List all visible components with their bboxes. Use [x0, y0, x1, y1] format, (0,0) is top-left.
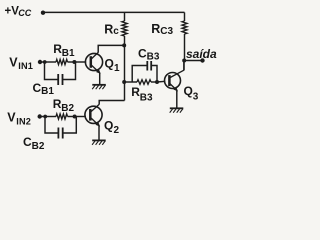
svg-text:saída: saída: [186, 47, 217, 61]
wire to Q3 base: [157, 80, 165, 83]
svg-text:B1: B1: [62, 48, 75, 59]
svg-text:B1: B1: [41, 86, 54, 97]
node +Vcc terminal: [41, 11, 45, 15]
resistor Rb3: [124, 80, 157, 85]
capacitor Cb2: [45, 117, 76, 139]
node junction bus / Q3 base network: [122, 80, 126, 84]
label Rc3: [151, 22, 173, 37]
label Cb1: [33, 81, 55, 97]
wire to Q1 base: [75, 61, 86, 63]
wire Q1 emitter to ground: [99, 73, 101, 85]
wire Q2 collector: [99, 101, 124, 105]
resistor Rc3: [182, 12, 187, 34]
svg-text:CC: CC: [18, 8, 31, 18]
node input2 to Q2 base: [73, 115, 77, 119]
node input1 split: [43, 60, 47, 64]
label Q2: [104, 118, 120, 136]
wire output tap: [184, 60, 201, 62]
ground Q1: [92, 85, 106, 89]
svg-text:c: c: [113, 26, 119, 37]
svg-text:B2: B2: [32, 141, 45, 152]
label Rc: [104, 23, 119, 37]
node junction Rc / Q1 collector: [122, 43, 126, 47]
node input1 to Q1 base: [72, 60, 76, 64]
svg-text:Q: Q: [184, 84, 193, 98]
wire Q3 collector riser: [183, 61, 185, 71]
label Vin2: [7, 111, 31, 127]
label Q1: [105, 56, 121, 74]
label Rb2: [53, 97, 75, 114]
capacitor Cb3: [132, 61, 157, 82]
node Vin1 terminal: [38, 60, 42, 64]
svg-text:B2: B2: [61, 103, 74, 114]
label Cb2: [23, 135, 45, 152]
resistor Rc: [122, 12, 127, 36]
label Rb3: [131, 85, 153, 104]
svg-text:C3: C3: [160, 26, 173, 37]
label Cb3: [138, 46, 160, 62]
svg-text:IN1: IN1: [18, 61, 33, 71]
power label +Vcc: [5, 6, 32, 19]
label Vin1: [9, 56, 33, 72]
label Rb1: [53, 42, 75, 59]
wire Vin2 to node: [40, 116, 45, 118]
transistor Q2: [85, 104, 102, 126]
node saida terminal: [200, 58, 204, 62]
ground Q3: [170, 108, 184, 112]
transistor Q1: [85, 52, 102, 73]
resistor Rb2: [45, 114, 75, 119]
wire Q1 collector: [98, 45, 124, 52]
svg-text:B3: B3: [147, 51, 160, 62]
svg-text:IN2: IN2: [16, 117, 31, 127]
svg-text:R: R: [104, 23, 113, 37]
svg-text:B3: B3: [140, 93, 153, 104]
ground Q2: [92, 140, 106, 144]
svg-text:V: V: [9, 56, 18, 70]
node output junction: [182, 59, 186, 63]
wire Q2 emitter to ground: [98, 125, 100, 140]
transistor Q3: [165, 70, 184, 91]
svg-text:2: 2: [114, 125, 120, 136]
node input2 split: [43, 115, 47, 119]
resistor Rb1: [45, 59, 76, 64]
svg-text:3: 3: [193, 91, 199, 102]
wire Q3 emitter to ground: [176, 90, 178, 108]
wire Rc3 to output node: [184, 34, 186, 61]
wire Vin1 to node: [40, 61, 45, 63]
capacitor Cb1: [45, 62, 76, 85]
wire +Vcc rail: [44, 11, 185, 13]
node Vin2 terminal: [38, 114, 42, 118]
wire Rc bottom / main collector bus: [124, 36, 126, 101]
svg-text:R: R: [151, 22, 160, 36]
wire to Q2 base: [75, 116, 86, 118]
svg-text:1: 1: [114, 63, 120, 74]
svg-text:V: V: [7, 111, 16, 125]
label Q3: [184, 84, 199, 102]
node Rb3/Cb3 to Q3 base: [155, 80, 159, 84]
svg-text:Q: Q: [104, 118, 113, 132]
svg-text:+V: +V: [5, 6, 20, 18]
svg-text:Q: Q: [105, 56, 114, 70]
wire Q3 collector: [183, 61, 185, 71]
